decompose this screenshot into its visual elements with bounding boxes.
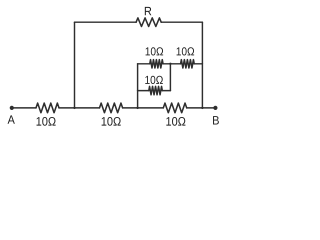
value 10ohm sub top-right xyxy=(177,47,195,55)
value 10ohm bottom-middle xyxy=(102,117,121,126)
resistor R zigzag xyxy=(136,18,161,27)
wire sub bottom rail left segment xyxy=(138,90,149,92)
value 10ohm bottom-left xyxy=(37,117,56,126)
wire bottom segment 3 xyxy=(123,107,164,109)
wire top-left segment xyxy=(75,21,137,23)
node label B xyxy=(213,116,219,124)
wire top-right segment xyxy=(161,21,202,23)
resistor 10ohm sub top-right zigzag xyxy=(181,60,195,68)
resistor 10ohm sub top-left zigzag xyxy=(150,60,163,68)
wire bottom segment 2 xyxy=(59,107,100,109)
wire bottom lead to B xyxy=(187,107,216,109)
wire sub bottom rail right segment xyxy=(162,90,170,92)
resistor 10ohm sub inner zigzag xyxy=(149,86,163,94)
junction dot mid vertical / top rail xyxy=(169,63,171,65)
wire sub middle vertical xyxy=(169,64,171,91)
node A terminal dot xyxy=(10,106,14,110)
node B terminal dot xyxy=(213,106,217,110)
wire sub top rail left segment xyxy=(138,63,150,65)
resistor 10ohm bottom-left zigzag xyxy=(36,103,59,113)
value 10ohm sub top-left xyxy=(146,47,164,55)
wire right vertical xyxy=(201,22,203,108)
label R xyxy=(145,7,152,15)
resistor 10ohm bottom-right zigzag xyxy=(163,103,186,113)
value 10ohm bottom-right xyxy=(166,117,185,126)
wire sub-network left vertical xyxy=(137,64,139,108)
node label A xyxy=(8,115,15,123)
wire sub top rail middle segment xyxy=(163,63,181,65)
junction dot right vertical / bottom wire xyxy=(201,107,203,109)
wire sub top rail right segment xyxy=(194,63,202,65)
value 10ohm sub inner xyxy=(145,76,163,84)
wire left vertical xyxy=(74,22,76,108)
junction dot left vertical / bottom wire xyxy=(73,107,75,109)
junction dot sub vertical / bottom wire xyxy=(136,107,138,109)
resistor 10ohm bottom-middle zigzag xyxy=(100,103,123,113)
wire bottom lead from A xyxy=(12,107,36,109)
